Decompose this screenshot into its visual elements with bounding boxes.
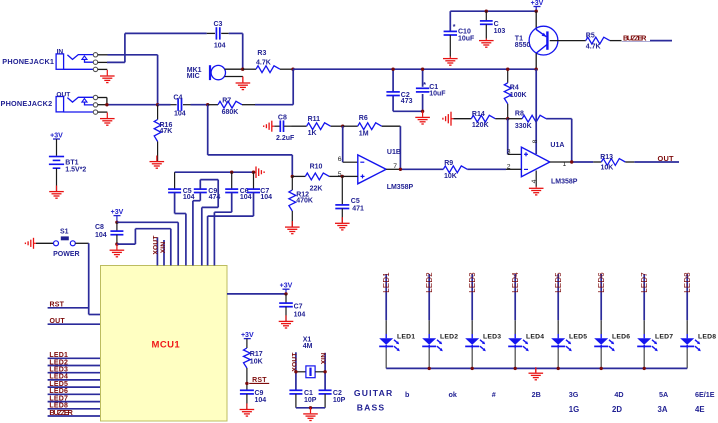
diode LED8 bbox=[680, 272, 716, 368]
svg-text:8: 8 bbox=[532, 139, 539, 143]
pin 4 label bbox=[531, 179, 538, 183]
wire bank C9 bottom to MCU bbox=[193, 193, 200, 266]
resistor R11 bbox=[292, 116, 343, 137]
ground C bbox=[479, 39, 494, 48]
ground MK1 bbox=[236, 77, 251, 90]
svg-text:C8: C8 bbox=[95, 224, 104, 231]
net label BUZZER left bbox=[48, 408, 101, 417]
wire T1 base bbox=[550, 40, 586, 42]
svg-text:100K: 100K bbox=[510, 92, 527, 99]
svg-text:LED3: LED3 bbox=[483, 334, 501, 341]
svg-text:104: 104 bbox=[95, 232, 107, 239]
svg-text:R11: R11 bbox=[308, 116, 321, 123]
wire U1A pin8 supply bbox=[535, 69, 537, 154]
junction +3V C8 bbox=[115, 221, 118, 224]
pin 3 label bbox=[507, 149, 511, 156]
capacitor C2 10P bbox=[319, 390, 346, 408]
power +3V battery bbox=[50, 132, 63, 155]
text BASS bbox=[357, 403, 386, 413]
crystal X1 4M bbox=[296, 336, 325, 377]
svg-text:R5: R5 bbox=[586, 32, 595, 39]
svg-text:22K: 22K bbox=[310, 185, 323, 192]
svg-text:BUZZER: BUZZER bbox=[49, 408, 73, 417]
svg-text:4: 4 bbox=[531, 179, 538, 183]
svg-text:C4: C4 bbox=[173, 94, 182, 101]
svg-text:3: 3 bbox=[507, 149, 511, 156]
svg-text:LED4: LED4 bbox=[511, 272, 520, 293]
svg-text:+3V: +3V bbox=[50, 132, 63, 139]
power +3V right bbox=[280, 282, 293, 294]
wire C bottom bbox=[485, 24, 487, 38]
svg-text:+3V: +3V bbox=[280, 282, 293, 289]
svg-text:104: 104 bbox=[260, 194, 272, 201]
diode LED6 bbox=[594, 272, 630, 368]
svg-text:LED2: LED2 bbox=[425, 272, 434, 293]
net label OUT left bbox=[48, 318, 101, 325]
svg-text:LED6: LED6 bbox=[612, 334, 630, 341]
svg-text:XOUT: XOUT bbox=[292, 352, 299, 371]
ground cap bus bbox=[254, 166, 265, 178]
net label OUT right bbox=[658, 154, 674, 163]
svg-text:10uF: 10uF bbox=[429, 90, 446, 97]
wire jack1 tip to node bbox=[98, 55, 158, 105]
text note 4D bbox=[614, 390, 623, 399]
text note 2B bbox=[532, 390, 541, 399]
ground C8 input bbox=[264, 121, 275, 132]
svg-text:*: * bbox=[453, 24, 456, 31]
diode LED3 bbox=[465, 272, 501, 368]
svg-text:PHONEJACK2: PHONEJACK2 bbox=[1, 99, 53, 108]
ground C7 right bbox=[279, 315, 294, 328]
diode LED1 bbox=[379, 272, 415, 368]
ground R16 bbox=[150, 156, 165, 169]
wire bank C7 to MCU bbox=[208, 193, 254, 266]
junction X1 right bbox=[323, 370, 326, 373]
svg-text:C5: C5 bbox=[351, 198, 360, 205]
svg-text:b: b bbox=[405, 390, 410, 399]
wire C3 right bbox=[221, 33, 243, 69]
wire C2 branch bbox=[393, 69, 423, 111]
net labels LED1-LED8 left bbox=[48, 352, 101, 410]
ground S1 input bbox=[25, 238, 36, 249]
capacitor C4 bbox=[158, 94, 208, 117]
wire R6 to output bbox=[399, 126, 401, 169]
svg-text:10uF: 10uF bbox=[458, 35, 475, 42]
svg-text:10P: 10P bbox=[333, 397, 346, 404]
text note ok bbox=[449, 390, 457, 399]
svg-text:LED1: LED1 bbox=[382, 272, 391, 293]
wire cap bus bbox=[175, 171, 254, 173]
wire +3V to MCU bbox=[117, 222, 178, 265]
resistor R4 bbox=[504, 69, 526, 119]
net label XIN (MCU) bbox=[160, 240, 167, 266]
svg-text:3G: 3G bbox=[569, 390, 579, 399]
junction crystal gnd bbox=[309, 406, 312, 409]
svg-text:LED6: LED6 bbox=[597, 272, 606, 293]
resistor R5 bbox=[586, 32, 610, 50]
net label RST (R17) bbox=[249, 377, 269, 384]
wire bank C6 to MCU bbox=[214, 193, 231, 266]
svg-text:MCU1: MCU1 bbox=[152, 340, 181, 351]
diode LED7 bbox=[637, 272, 673, 368]
resistor R10 bbox=[292, 163, 342, 192]
capacitor C10 10uF bbox=[444, 24, 475, 43]
svg-text:LED8: LED8 bbox=[683, 272, 692, 293]
capacitor C8 104 bbox=[95, 222, 123, 244]
wire LED bus bbox=[386, 367, 687, 369]
wire C3 left bbox=[125, 33, 215, 62]
resistor R16 bbox=[154, 105, 172, 161]
capacitor C3 bbox=[214, 21, 226, 49]
junction C1 top bbox=[421, 68, 424, 71]
capacitor C1 10P bbox=[289, 390, 316, 408]
text note b bbox=[405, 390, 410, 399]
svg-text:470K: 470K bbox=[296, 198, 313, 205]
svg-text:104: 104 bbox=[214, 42, 226, 49]
svg-text:10K: 10K bbox=[444, 173, 457, 180]
wire S1 to MCU bbox=[75, 243, 100, 314]
resistor R8 bbox=[508, 111, 546, 130]
svg-text:R7: R7 bbox=[222, 98, 231, 105]
resistor R14 bbox=[454, 111, 508, 129]
text note 4E bbox=[695, 405, 705, 414]
svg-text:1M: 1M bbox=[359, 131, 369, 138]
svg-text:XIN: XIN bbox=[321, 353, 328, 365]
junction bus C6 bbox=[230, 171, 233, 174]
MCU U-MCU1 block bbox=[101, 266, 228, 422]
switch S1 POWER bbox=[53, 229, 79, 258]
junctions LED bus bbox=[428, 367, 646, 370]
junction MK1/C3/R3 bbox=[241, 68, 244, 71]
svg-text:POWER: POWER bbox=[53, 251, 79, 258]
svg-text:10P: 10P bbox=[304, 397, 317, 404]
wire BT1 bottom bbox=[56, 168, 58, 191]
resistor R17 bbox=[244, 348, 263, 390]
svg-text:LED4: LED4 bbox=[49, 374, 68, 381]
junction U1A output bbox=[570, 160, 573, 163]
wire U1B output bbox=[386, 168, 443, 170]
wire U1A pin3 bbox=[508, 119, 522, 155]
net label XOUT (MCU) bbox=[153, 235, 160, 265]
wire U1B pin6 bbox=[343, 126, 358, 162]
svg-text:1K: 1K bbox=[308, 130, 317, 137]
wire C4 node down bbox=[208, 105, 293, 177]
svg-text:LM358P: LM358P bbox=[387, 184, 414, 191]
label PHONEJACK2 bbox=[1, 91, 71, 107]
resistor R7 bbox=[208, 98, 294, 116]
capacitor C7 104 (right) bbox=[279, 294, 305, 321]
svg-text:104: 104 bbox=[294, 312, 306, 319]
junction C4/R7 bbox=[206, 103, 209, 106]
svg-text:LED7: LED7 bbox=[655, 334, 673, 341]
wire R13 to OUT bbox=[625, 161, 679, 163]
pin 7 label bbox=[393, 163, 397, 170]
svg-text:IN: IN bbox=[57, 48, 64, 55]
capacitor C8 2.2uF bbox=[274, 115, 295, 142]
power +3V R17 bbox=[241, 332, 254, 348]
wire C8 gnd to MCU bbox=[117, 229, 171, 266]
diode LED2 bbox=[422, 272, 458, 368]
wire MCU to +3V right bbox=[227, 293, 286, 295]
svg-text:4.7K: 4.7K bbox=[256, 60, 271, 67]
pin 2 label bbox=[507, 163, 511, 170]
microphone MK1 bbox=[187, 65, 226, 80]
svg-text:+3V: +3V bbox=[241, 332, 254, 339]
wire top rail bbox=[450, 11, 536, 31]
wire bank C9 top to MCU bbox=[200, 180, 218, 266]
resistor R12 bbox=[289, 176, 313, 226]
wire bank C5 to MCU bbox=[175, 193, 186, 266]
text note # bbox=[492, 390, 496, 399]
junction C8 gnd bbox=[115, 242, 118, 245]
pin 1 label bbox=[563, 161, 567, 168]
junction R3 right bbox=[291, 68, 294, 71]
svg-text:MIC: MIC bbox=[187, 73, 200, 80]
svg-text:6: 6 bbox=[338, 156, 342, 163]
svg-text:47K: 47K bbox=[160, 128, 173, 135]
svg-text:C3: C3 bbox=[214, 21, 223, 28]
svg-text:4M: 4M bbox=[303, 343, 313, 350]
svg-text:LED7: LED7 bbox=[49, 395, 68, 402]
svg-text:R13: R13 bbox=[600, 154, 613, 161]
svg-text:103: 103 bbox=[494, 28, 506, 35]
ground BT1 bbox=[49, 186, 64, 199]
resistor R13 bbox=[600, 154, 625, 172]
power +3V C8 bbox=[111, 209, 124, 223]
wire T1 collector bbox=[535, 53, 537, 69]
svg-text:2.2uF: 2.2uF bbox=[276, 135, 295, 142]
svg-text:R4: R4 bbox=[510, 85, 519, 92]
wire jack1 ring to C3 bbox=[98, 61, 125, 63]
svg-text:#: # bbox=[492, 390, 496, 399]
ground R12 bbox=[285, 221, 300, 234]
junction jack2 node bbox=[105, 103, 108, 106]
ground C1/C2 bbox=[415, 111, 430, 124]
svg-text:LED5: LED5 bbox=[554, 272, 563, 293]
ground X1 caps bbox=[303, 408, 318, 421]
capacitor C2 bbox=[386, 92, 412, 105]
net label XIN (X1) bbox=[321, 353, 328, 390]
transistor T1 8550 bbox=[515, 26, 558, 55]
svg-text:XOUT: XOUT bbox=[153, 235, 160, 254]
svg-text:5A: 5A bbox=[659, 390, 668, 399]
power +3V T1 bbox=[531, 0, 544, 11]
svg-text:U1A: U1A bbox=[550, 142, 564, 149]
svg-text:LED2: LED2 bbox=[49, 359, 68, 366]
capacitor C5 471 bbox=[335, 176, 364, 222]
junction X1 left bbox=[294, 370, 297, 373]
svg-text:471: 471 bbox=[352, 205, 364, 212]
svg-text:PHONEJACK1: PHONEJACK1 bbox=[2, 57, 54, 66]
svg-text:GUITAR: GUITAR bbox=[354, 388, 394, 398]
junction RST bbox=[245, 382, 248, 385]
svg-text:7: 7 bbox=[393, 163, 397, 170]
wire jack2 sleeve bbox=[98, 111, 108, 113]
svg-text:OUT: OUT bbox=[658, 154, 674, 163]
junction node C4/R16 bbox=[156, 103, 159, 106]
svg-text:LED1: LED1 bbox=[49, 352, 68, 359]
junction R14/R4/R8 bbox=[506, 117, 509, 120]
net label XOUT (X1) bbox=[292, 352, 299, 390]
resistor R3 bbox=[243, 50, 293, 73]
junction C2 top bbox=[391, 68, 394, 71]
wire R7 up to rail bbox=[292, 69, 294, 105]
svg-text:XIN: XIN bbox=[160, 242, 167, 254]
junction R10/C5 bbox=[341, 175, 344, 178]
text note 3G bbox=[569, 390, 579, 399]
ground C8 bbox=[110, 244, 125, 257]
wire T1 emitter bbox=[535, 11, 537, 29]
battery BT1 1.5V*2 bbox=[49, 157, 87, 174]
svg-text:RST: RST bbox=[50, 302, 65, 309]
svg-text:1.5V*2: 1.5V*2 bbox=[65, 166, 86, 173]
svg-text:LED4: LED4 bbox=[526, 334, 544, 341]
svg-text:4D: 4D bbox=[614, 390, 623, 399]
capacitor C5 104 (bank) bbox=[168, 172, 195, 201]
svg-text:OUT: OUT bbox=[50, 318, 66, 325]
label PHONEJACK1 bbox=[2, 48, 63, 66]
text note 5A bbox=[659, 390, 668, 399]
text note 2D bbox=[612, 405, 622, 414]
wire bias rail bbox=[293, 68, 536, 70]
svg-text:*: * bbox=[423, 82, 426, 89]
ground C10 bbox=[443, 57, 458, 66]
svg-text:3A: 3A bbox=[658, 405, 668, 414]
svg-text:R8: R8 bbox=[515, 111, 524, 118]
pin 5 label bbox=[338, 171, 342, 178]
ground C9 bbox=[240, 403, 255, 416]
svg-text:2D: 2D bbox=[612, 405, 622, 414]
svg-text:U1B: U1B bbox=[387, 149, 401, 156]
capacitor C9 474 (bank) bbox=[194, 188, 221, 201]
wire U1A output bbox=[550, 161, 602, 163]
svg-text:LED8: LED8 bbox=[698, 334, 716, 341]
wire MK1 bottom lead bbox=[225, 76, 243, 78]
svg-text:C8: C8 bbox=[278, 115, 287, 122]
svg-text:104: 104 bbox=[240, 194, 252, 201]
svg-text:R14: R14 bbox=[472, 111, 485, 118]
svg-text:BUZZER: BUZZER bbox=[623, 34, 647, 43]
svg-text:330K: 330K bbox=[515, 123, 532, 130]
diode LED4 bbox=[508, 272, 544, 369]
svg-text:LM358P: LM358P bbox=[551, 179, 578, 186]
svg-text:4.7K: 4.7K bbox=[586, 44, 601, 51]
svg-text:4E: 4E bbox=[695, 405, 705, 414]
op-amp U1B LM358P bbox=[358, 149, 414, 191]
text GUITAR bbox=[354, 388, 394, 398]
svg-text:LED5: LED5 bbox=[49, 381, 68, 388]
svg-text:BASS: BASS bbox=[357, 403, 386, 413]
ground U1A pin4 bbox=[529, 187, 544, 195]
wire C10 bottom bbox=[449, 35, 451, 57]
text note 6E/1E bbox=[695, 390, 715, 399]
resistor R9 bbox=[443, 160, 521, 180]
junction bus C7 bbox=[252, 171, 255, 174]
connector PHONEJACK1 jack symbol bbox=[56, 53, 98, 72]
svg-text:LED6: LED6 bbox=[49, 388, 68, 395]
svg-text:104: 104 bbox=[255, 397, 267, 404]
pin 8 label bbox=[532, 139, 539, 143]
wire U1B pin5 bbox=[342, 175, 358, 177]
svg-text:6E/1E: 6E/1E bbox=[695, 390, 715, 399]
svg-text:R6: R6 bbox=[359, 115, 368, 122]
capacitor C 103 bbox=[480, 11, 505, 35]
wire jack1 sleeve bbox=[98, 68, 108, 70]
svg-text:R9: R9 bbox=[444, 160, 453, 167]
svg-text:1: 1 bbox=[563, 161, 567, 168]
ground LED bus bbox=[529, 367, 544, 380]
junction U1B output/R6 bbox=[399, 168, 402, 171]
svg-text:1G: 1G bbox=[569, 405, 579, 414]
wire MK1 top lead bbox=[225, 68, 243, 70]
svg-text:LED3: LED3 bbox=[468, 272, 477, 293]
diode LED5 bbox=[551, 272, 587, 369]
capacitor C6 104 (bank) bbox=[225, 172, 251, 201]
net label RST left bbox=[48, 302, 89, 309]
wire R8 to output bbox=[546, 119, 572, 162]
ground C5 bbox=[335, 217, 350, 230]
junction R11/R6/pin6 bbox=[341, 125, 344, 128]
pin 6 label bbox=[338, 156, 342, 163]
junction T1 collector bbox=[535, 68, 538, 71]
junction C1 bottom bbox=[421, 110, 424, 113]
resistor R6 bbox=[343, 115, 401, 138]
svg-text:R17: R17 bbox=[250, 351, 263, 358]
wire S1 left bbox=[36, 242, 53, 244]
wire C1 branch bbox=[422, 69, 424, 111]
junction +3V rail bbox=[535, 10, 538, 13]
op-amp U1A LM358P bbox=[521, 142, 577, 186]
svg-text:+3V: +3V bbox=[111, 209, 124, 216]
ground jack2 sleeve bbox=[100, 113, 115, 126]
text note 3A bbox=[658, 405, 668, 414]
net label BUZZER top bbox=[622, 34, 651, 43]
svg-text:RST: RST bbox=[252, 377, 267, 384]
svg-text:ok: ok bbox=[449, 390, 457, 399]
svg-text:R10: R10 bbox=[310, 163, 323, 170]
svg-text:8550: 8550 bbox=[515, 42, 531, 49]
svg-text:LED3: LED3 bbox=[49, 367, 68, 374]
junction R10/R12 bbox=[291, 175, 294, 178]
svg-text:473: 473 bbox=[401, 98, 413, 105]
svg-text:2B: 2B bbox=[532, 390, 541, 399]
text note 1G bbox=[569, 405, 579, 414]
svg-text:680K: 680K bbox=[222, 109, 239, 116]
svg-text:LED7: LED7 bbox=[640, 272, 649, 293]
svg-text:OUT: OUT bbox=[56, 91, 70, 98]
svg-text:10K: 10K bbox=[250, 359, 263, 366]
ground jack1 sleeve bbox=[100, 70, 115, 83]
wire crystal gnd bbox=[296, 407, 325, 409]
svg-text:C7: C7 bbox=[294, 304, 303, 311]
junction top rail C bbox=[485, 10, 488, 13]
wire jack2 ring to node bbox=[98, 104, 158, 106]
ground R14 input bbox=[443, 112, 454, 126]
wire U1A pin4 bbox=[535, 171, 537, 187]
junction +3V right bbox=[284, 292, 287, 295]
capacitor C9 104 bbox=[240, 390, 266, 409]
svg-text:LED5: LED5 bbox=[569, 334, 587, 341]
wire jack2 tip jog bbox=[98, 98, 107, 105]
svg-text:S1: S1 bbox=[60, 229, 69, 236]
junction R4 rail bbox=[506, 68, 509, 71]
svg-text:120K: 120K bbox=[472, 122, 489, 129]
svg-text:R3: R3 bbox=[257, 50, 266, 57]
capacitor C7 104 (bank) bbox=[247, 172, 272, 201]
connector PHONEJACK2 jack symbol bbox=[56, 95, 98, 114]
wire R5 to BUZZER bbox=[610, 40, 672, 42]
svg-text:LED2: LED2 bbox=[440, 334, 458, 341]
